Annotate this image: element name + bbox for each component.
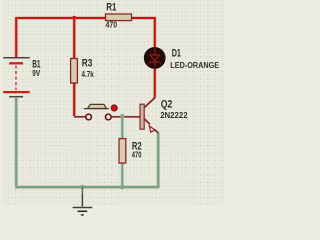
resistor R2 [119, 139, 126, 164]
node button state dot [111, 105, 117, 111]
svg-text:D1: D1 [172, 47, 181, 59]
resistor R3 [71, 59, 78, 84]
node junction base/R2 [120, 114, 125, 119]
resistor R1 [106, 14, 132, 21]
wire green emitter drop [156, 132, 160, 187]
transistor Q2 [140, 98, 158, 133]
wire green battery negative down [14, 98, 18, 186]
svg-text:4.7k: 4.7k [82, 70, 95, 79]
svg-text:9V: 9V [32, 69, 41, 78]
wire left drop to battery [14, 17, 18, 57]
svg-text:2N2222: 2N2222 [160, 110, 188, 120]
wire top rail right segment [132, 18, 155, 48]
wire button to base [111, 116, 140, 118]
node junction ground/bus [80, 185, 85, 190]
svg-text:Q2: Q2 [161, 98, 173, 110]
node junction R2/bus [120, 185, 125, 190]
ground [73, 187, 93, 215]
wire top rail left segment [16, 16, 105, 20]
svg-text:R1: R1 [106, 1, 116, 13]
wire green R2 top [121, 116, 124, 138]
wire LED to collector [153, 69, 157, 99]
button (push switch) [74, 104, 111, 119]
svg-text:470: 470 [132, 151, 142, 160]
wire R3 branch upper [72, 18, 76, 59]
svg-text:470: 470 [106, 20, 118, 30]
svg-text:LED-ORANGE: LED-ORANGE [170, 60, 219, 70]
node junction at R3 top [72, 16, 76, 20]
battery B1 [3, 58, 29, 97]
wire green bottom bus [15, 185, 159, 189]
wire R3 bottom to button [72, 83, 76, 116]
wire green R2 bottom [121, 163, 124, 187]
LED D1 [144, 47, 166, 69]
svg-text:R3: R3 [82, 58, 93, 70]
